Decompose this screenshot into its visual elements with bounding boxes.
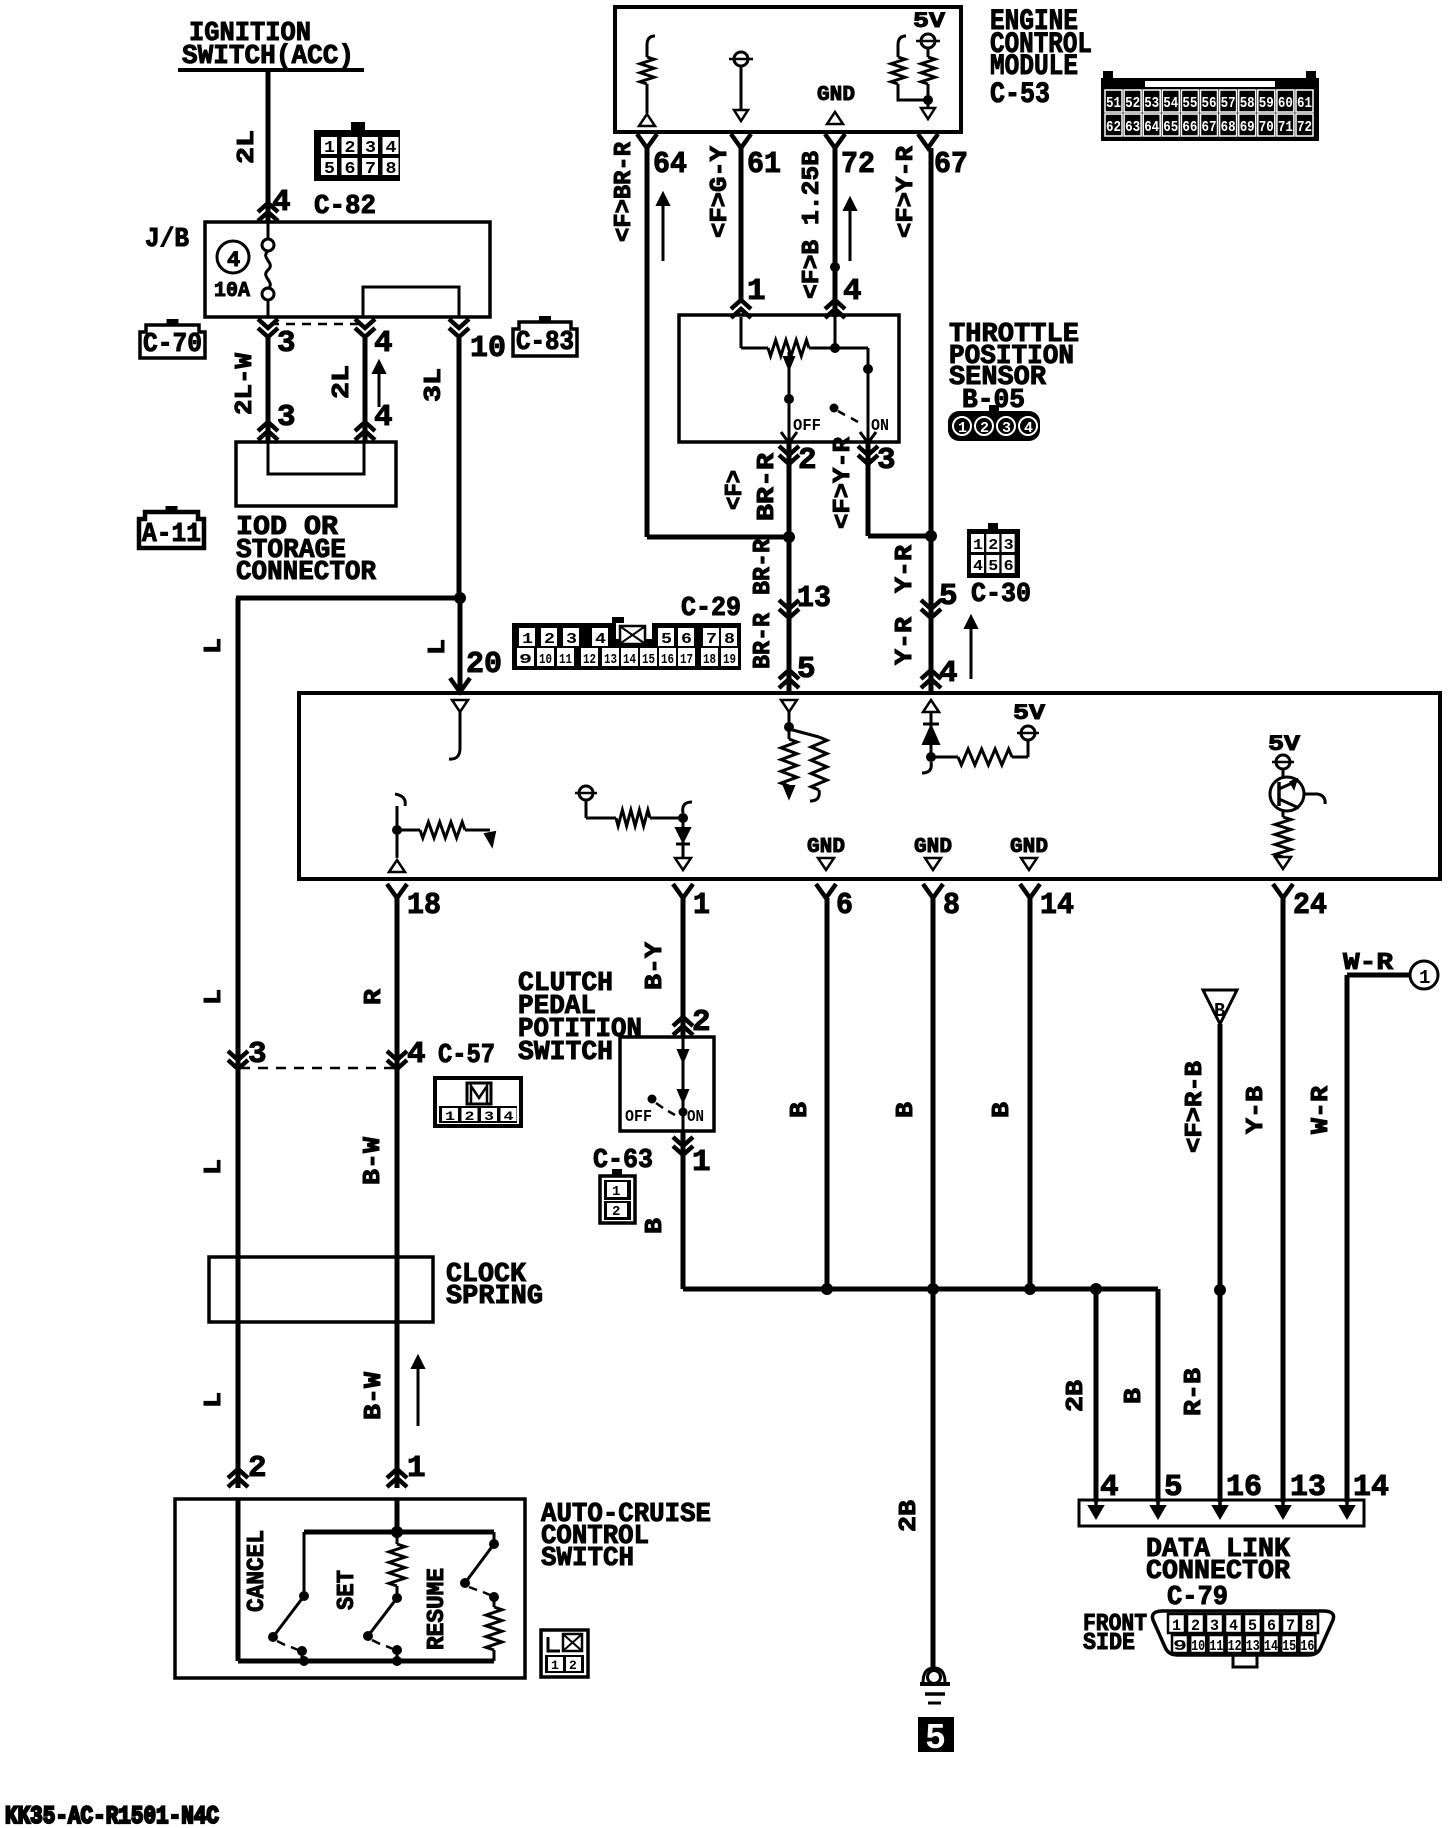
svg-text:C-29: C-29 bbox=[681, 594, 741, 624]
svg-text:B: B bbox=[893, 1102, 920, 1118]
svg-text:3L: 3L bbox=[421, 368, 448, 402]
svg-text:<F>R-B: <F>R-B bbox=[1182, 1061, 1209, 1153]
svg-text:1: 1 bbox=[693, 888, 710, 923]
svg-text:57: 57 bbox=[1221, 95, 1236, 112]
svg-text:67: 67 bbox=[934, 147, 968, 182]
svg-text:13: 13 bbox=[604, 652, 617, 668]
svg-text:18: 18 bbox=[703, 652, 716, 668]
svg-text:61: 61 bbox=[747, 147, 781, 182]
svg-text:RESUME: RESUME bbox=[424, 1568, 451, 1650]
svg-text:3: 3 bbox=[277, 326, 296, 361]
svg-text:J/B: J/B bbox=[145, 225, 189, 255]
svg-text:8: 8 bbox=[724, 631, 735, 648]
svg-text:GND: GND bbox=[807, 836, 845, 859]
svg-text:4: 4 bbox=[374, 326, 393, 361]
svg-text:12: 12 bbox=[583, 652, 596, 668]
svg-text:2L: 2L bbox=[234, 130, 261, 164]
svg-text:B-W: B-W bbox=[360, 1136, 387, 1185]
svg-text:7: 7 bbox=[365, 160, 376, 179]
svg-text:13: 13 bbox=[797, 581, 831, 616]
svg-text:55: 55 bbox=[1182, 95, 1197, 112]
svg-text:20: 20 bbox=[466, 647, 502, 682]
svg-text:<F>B 1.25B: <F>B 1.25B bbox=[799, 151, 826, 299]
svg-text:51: 51 bbox=[1106, 95, 1121, 112]
svg-text:2B: 2B bbox=[1063, 1380, 1090, 1412]
svg-text:Y-R: Y-R bbox=[892, 544, 919, 593]
svg-text:59: 59 bbox=[1259, 95, 1274, 112]
svg-text:69: 69 bbox=[1240, 119, 1255, 136]
svg-text:1: 1 bbox=[1419, 967, 1430, 989]
svg-text:2L: 2L bbox=[329, 365, 356, 399]
svg-text:2: 2 bbox=[569, 1658, 577, 1673]
svg-text:1: 1 bbox=[445, 1109, 455, 1124]
svg-text:72: 72 bbox=[1297, 119, 1312, 136]
svg-text:16: 16 bbox=[1300, 1638, 1314, 1655]
svg-text:2: 2 bbox=[980, 420, 989, 437]
svg-text:C-57: C-57 bbox=[438, 1041, 495, 1071]
svg-text:6: 6 bbox=[836, 888, 853, 923]
svg-text:63: 63 bbox=[1125, 119, 1140, 136]
svg-text:3: 3 bbox=[1210, 1617, 1219, 1635]
svg-text:L: L bbox=[201, 1392, 228, 1408]
svg-text:CONNECTOR: CONNECTOR bbox=[236, 558, 377, 588]
svg-text:1: 1 bbox=[522, 631, 533, 648]
svg-text:4: 4 bbox=[386, 139, 397, 158]
svg-text:10A: 10A bbox=[214, 280, 250, 303]
svg-text:15: 15 bbox=[642, 652, 655, 668]
svg-text:BR-R: BR-R bbox=[750, 538, 777, 595]
svg-text:4: 4 bbox=[374, 400, 393, 435]
svg-text:16: 16 bbox=[661, 652, 674, 668]
svg-text:14: 14 bbox=[1264, 1638, 1278, 1655]
svg-text:5V: 5V bbox=[913, 9, 946, 34]
svg-text:C-70: C-70 bbox=[143, 330, 202, 360]
svg-text:1: 1 bbox=[973, 537, 983, 554]
svg-text:54: 54 bbox=[1163, 95, 1178, 112]
svg-text:ON: ON bbox=[687, 1108, 704, 1127]
svg-text:14: 14 bbox=[623, 652, 636, 668]
svg-text:9: 9 bbox=[519, 652, 532, 668]
svg-text:OFF: OFF bbox=[625, 1108, 652, 1127]
svg-text:B-W: B-W bbox=[361, 1371, 388, 1420]
svg-text:4: 4 bbox=[272, 185, 291, 220]
svg-text:10: 10 bbox=[1191, 1638, 1205, 1655]
svg-text:3: 3 bbox=[566, 631, 577, 648]
svg-text:5: 5 bbox=[1248, 1617, 1257, 1635]
svg-text:C-63: C-63 bbox=[593, 1146, 653, 1176]
svg-text:8: 8 bbox=[386, 160, 397, 179]
svg-text:56: 56 bbox=[1202, 95, 1217, 112]
svg-text:10: 10 bbox=[470, 331, 506, 366]
svg-text:SET: SET bbox=[334, 1570, 361, 1610]
svg-text:<F>BR-R: <F>BR-R bbox=[611, 141, 638, 242]
svg-text:8: 8 bbox=[943, 888, 960, 923]
svg-text:4: 4 bbox=[227, 248, 240, 273]
svg-text:12: 12 bbox=[1228, 1638, 1242, 1655]
svg-text:64: 64 bbox=[653, 147, 687, 182]
svg-text:52: 52 bbox=[1125, 95, 1140, 112]
svg-text:8: 8 bbox=[1305, 1617, 1314, 1635]
svg-text:R: R bbox=[361, 988, 388, 1005]
svg-text:4: 4 bbox=[843, 274, 862, 309]
svg-text:3: 3 bbox=[277, 400, 296, 435]
svg-text:64: 64 bbox=[1144, 119, 1159, 136]
svg-text:4: 4 bbox=[973, 558, 983, 575]
svg-text:B: B bbox=[787, 1102, 814, 1118]
svg-text:1: 1 bbox=[612, 1184, 620, 1200]
svg-text:6: 6 bbox=[681, 631, 692, 648]
svg-text:62: 62 bbox=[1106, 119, 1121, 136]
svg-text:2B: 2B bbox=[896, 1500, 923, 1532]
svg-text:C-79: C-79 bbox=[1167, 1583, 1228, 1613]
svg-text:2: 2 bbox=[692, 1005, 711, 1040]
svg-text:4: 4 bbox=[504, 1109, 514, 1124]
svg-text:C-82: C-82 bbox=[314, 192, 376, 222]
svg-text:19: 19 bbox=[723, 652, 736, 668]
svg-text:Y-B: Y-B bbox=[1243, 1086, 1270, 1134]
svg-text:67: 67 bbox=[1202, 119, 1217, 136]
svg-text:C-53: C-53 bbox=[990, 78, 1050, 112]
svg-text:3: 3 bbox=[484, 1109, 494, 1124]
svg-text:2: 2 bbox=[612, 1204, 620, 1220]
svg-text:L: L bbox=[201, 1159, 228, 1175]
svg-text:70: 70 bbox=[1259, 119, 1274, 136]
svg-text:14: 14 bbox=[1040, 888, 1074, 923]
svg-text:C-30: C-30 bbox=[971, 580, 1031, 610]
svg-text:2: 2 bbox=[1191, 1617, 1200, 1635]
svg-text:1: 1 bbox=[958, 420, 967, 437]
svg-text:72: 72 bbox=[841, 147, 875, 182]
svg-text:3: 3 bbox=[365, 139, 376, 158]
svg-text:24: 24 bbox=[1293, 888, 1327, 923]
svg-text:71: 71 bbox=[1278, 119, 1293, 136]
svg-text:L: L bbox=[425, 639, 452, 655]
svg-text:5: 5 bbox=[988, 558, 998, 575]
svg-text:<F>Y-R: <F>Y-R bbox=[893, 145, 920, 238]
svg-text:2: 2 bbox=[248, 1451, 267, 1486]
svg-text:15: 15 bbox=[1282, 1638, 1296, 1655]
svg-text:2: 2 bbox=[544, 631, 555, 648]
svg-text:B: B bbox=[1214, 1000, 1225, 1022]
svg-text:3: 3 bbox=[1002, 420, 1011, 437]
svg-text:SWITCH: SWITCH bbox=[518, 1038, 613, 1068]
svg-text:B: B bbox=[1121, 1388, 1148, 1404]
svg-text:7: 7 bbox=[1286, 1617, 1295, 1635]
svg-text:R-B: R-B bbox=[1181, 1368, 1208, 1416]
svg-text:1: 1 bbox=[324, 139, 335, 158]
svg-text:18: 18 bbox=[407, 888, 441, 923]
svg-text:5: 5 bbox=[661, 631, 672, 648]
svg-text:13: 13 bbox=[1246, 1638, 1260, 1655]
svg-text:58: 58 bbox=[1240, 95, 1255, 112]
svg-text:6: 6 bbox=[345, 160, 356, 179]
svg-text:11: 11 bbox=[1209, 1638, 1223, 1655]
svg-text:5: 5 bbox=[797, 652, 816, 687]
svg-text:B: B bbox=[989, 1102, 1016, 1118]
svg-text:B-Y: B-Y bbox=[642, 941, 669, 990]
svg-text:L: L bbox=[201, 989, 228, 1005]
svg-text:2L-W: 2L-W bbox=[232, 352, 259, 415]
svg-text:4: 4 bbox=[1024, 420, 1033, 437]
svg-text:1: 1 bbox=[747, 274, 766, 309]
svg-text:17: 17 bbox=[680, 652, 693, 668]
svg-text:GND: GND bbox=[1010, 836, 1048, 859]
svg-text:10: 10 bbox=[539, 652, 552, 668]
svg-text:2: 2 bbox=[465, 1109, 475, 1124]
svg-text:65: 65 bbox=[1163, 119, 1178, 136]
svg-text:60: 60 bbox=[1278, 95, 1293, 112]
svg-text:1: 1 bbox=[692, 1145, 711, 1180]
svg-text:5V: 5V bbox=[1268, 732, 1301, 757]
svg-text:53: 53 bbox=[1144, 95, 1159, 112]
svg-text:4: 4 bbox=[407, 1037, 426, 1072]
svg-text:2: 2 bbox=[988, 537, 998, 554]
svg-text:A-11: A-11 bbox=[142, 520, 201, 550]
svg-text:BR-R: BR-R bbox=[750, 612, 777, 669]
svg-text:KK35-AC-R1501-N4C: KK35-AC-R1501-N4C bbox=[5, 1802, 219, 1828]
svg-text:W-R: W-R bbox=[1308, 1085, 1335, 1134]
svg-text:SIDE: SIDE bbox=[1083, 1630, 1135, 1657]
svg-text:SPRING: SPRING bbox=[446, 1282, 543, 1312]
svg-text:SWITCH: SWITCH bbox=[541, 1544, 634, 1574]
svg-text:1: 1 bbox=[407, 1451, 426, 1486]
svg-text:L: L bbox=[201, 638, 228, 654]
svg-text:SWITCH(ACC): SWITCH(ACC) bbox=[182, 42, 354, 72]
svg-text:9: 9 bbox=[1173, 1638, 1187, 1655]
svg-text:5: 5 bbox=[939, 579, 958, 614]
svg-text:<F>Y-R: <F>Y-R bbox=[830, 436, 857, 529]
svg-text:B: B bbox=[642, 1218, 669, 1234]
svg-text:5: 5 bbox=[324, 160, 335, 179]
svg-text:GND: GND bbox=[914, 836, 952, 859]
svg-text:5: 5 bbox=[925, 1718, 946, 1759]
svg-text:1: 1 bbox=[551, 1658, 559, 1673]
svg-text:1: 1 bbox=[1172, 1617, 1181, 1635]
svg-text:5V: 5V bbox=[1013, 701, 1046, 726]
svg-text:6: 6 bbox=[1267, 1617, 1276, 1635]
svg-text:<F>G-Y: <F>G-Y bbox=[707, 145, 734, 238]
svg-text:CANCEL: CANCEL bbox=[244, 1530, 271, 1612]
svg-text:11: 11 bbox=[559, 652, 572, 668]
svg-text:7: 7 bbox=[706, 631, 717, 648]
svg-text:BR-R: BR-R bbox=[754, 452, 781, 521]
svg-text:<F>: <F> bbox=[722, 470, 749, 510]
svg-text:3: 3 bbox=[1004, 537, 1014, 554]
svg-text:2: 2 bbox=[798, 443, 817, 478]
svg-text:4: 4 bbox=[595, 631, 606, 648]
svg-text:2: 2 bbox=[345, 139, 356, 158]
svg-text:Y-R: Y-R bbox=[892, 616, 919, 665]
svg-text:GND: GND bbox=[817, 84, 855, 107]
svg-text:6: 6 bbox=[1004, 558, 1014, 575]
svg-text:61: 61 bbox=[1297, 95, 1312, 112]
svg-text:4: 4 bbox=[1229, 1617, 1238, 1635]
svg-text:3: 3 bbox=[877, 443, 896, 478]
svg-text:68: 68 bbox=[1221, 119, 1236, 136]
svg-text:66: 66 bbox=[1182, 119, 1197, 136]
svg-text:C-83: C-83 bbox=[516, 328, 574, 358]
